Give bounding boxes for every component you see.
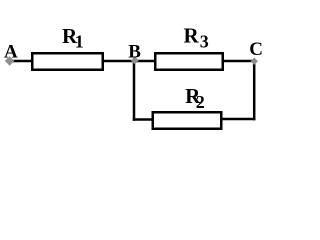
resistor R1 — [32, 53, 103, 70]
svg-text:R: R — [184, 24, 200, 48]
wire A to R1 — [10, 60, 33, 63]
wire R2 to bottom right — [221, 118, 255, 121]
wire C down — [253, 60, 256, 120]
svg-text:2: 2 — [196, 92, 205, 112]
svg-text:B: B — [128, 41, 141, 62]
wire B down — [133, 60, 136, 121]
svg-text:3: 3 — [200, 32, 209, 52]
resistor R3 — [155, 53, 223, 70]
svg-text:1: 1 — [75, 32, 84, 52]
node A — [5, 56, 15, 66]
svg-text:A: A — [4, 41, 18, 62]
wire bottom left to R2 — [133, 118, 153, 121]
svg-text:C: C — [249, 39, 263, 60]
wire R3 to C — [222, 60, 255, 63]
wire B to R3 — [133, 60, 156, 63]
node C — [251, 58, 258, 65]
resistor R2 — [153, 112, 222, 129]
wire R1 to B — [103, 60, 137, 63]
node B — [131, 56, 139, 64]
